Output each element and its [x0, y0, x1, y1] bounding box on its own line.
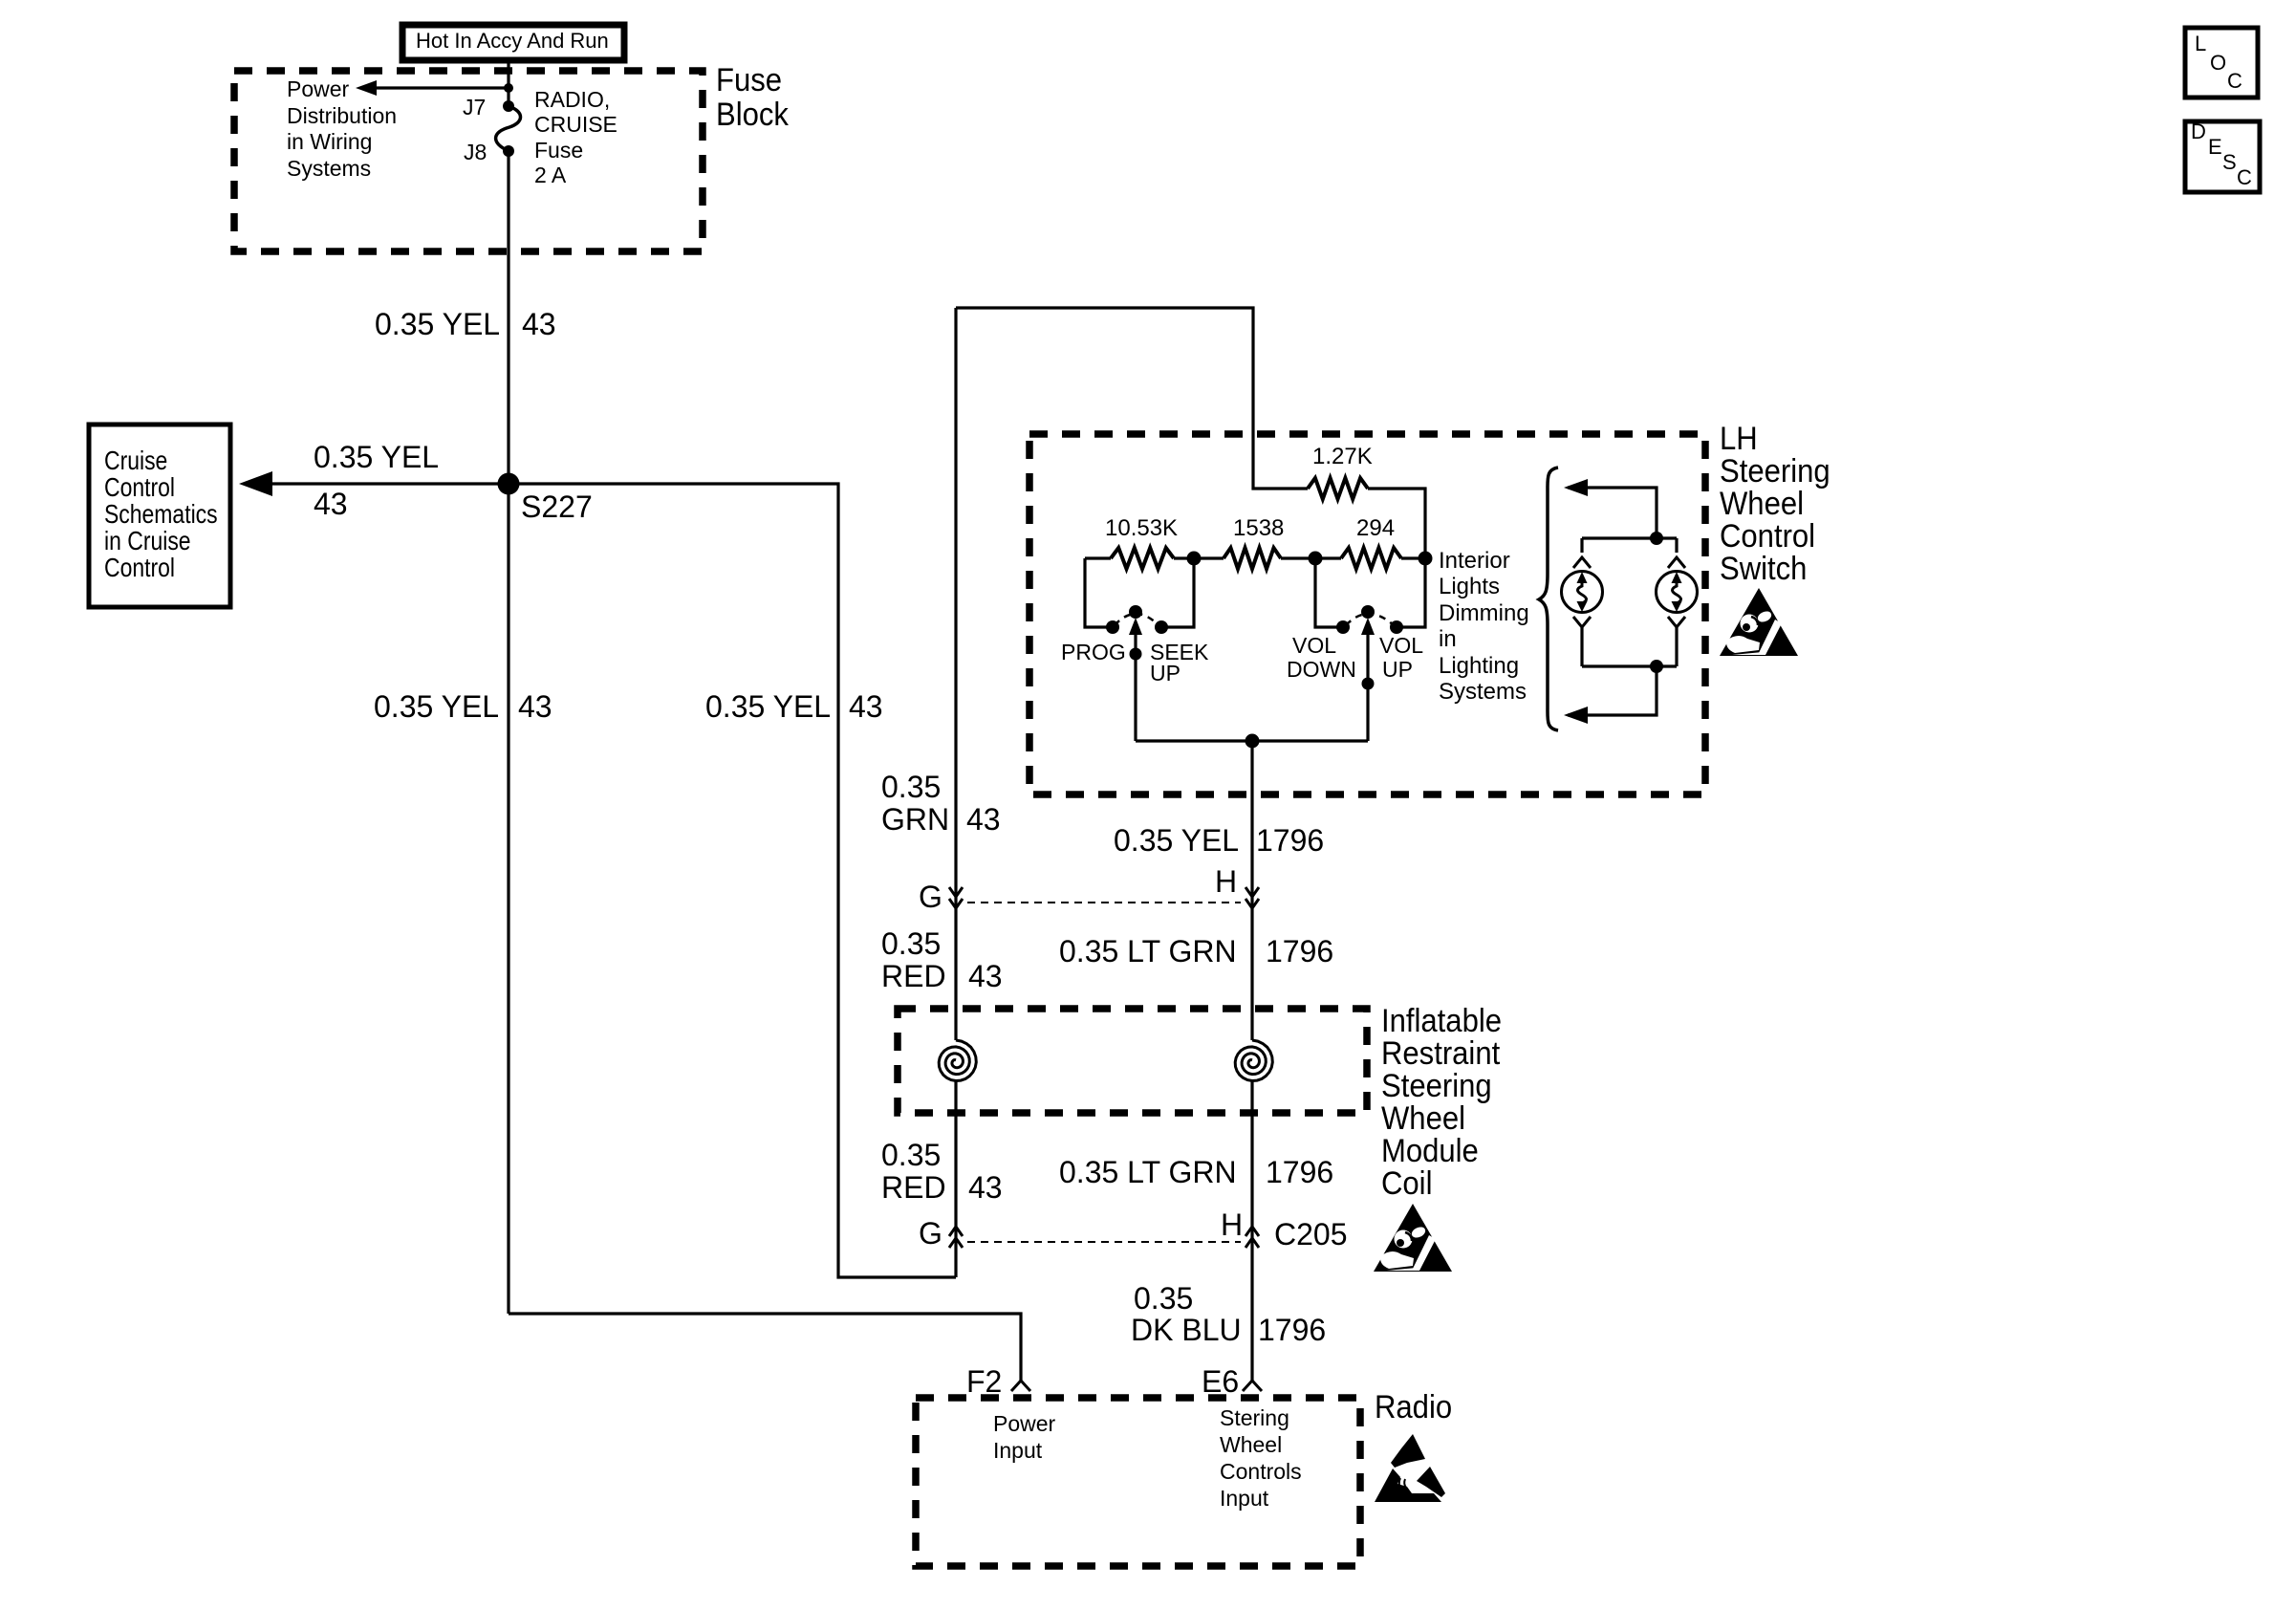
ESD triangle icon (radio) — [1375, 1434, 1445, 1502]
svg-text:C: C — [2237, 165, 2252, 189]
svg-text:C: C — [2227, 69, 2242, 93]
svg-text:0.35 LT GRN: 0.35 LT GRN — [1059, 934, 1237, 968]
svg-text:Wheel: Wheel — [1220, 1432, 1282, 1457]
arrowhead S227 to cruise box (left) — [239, 471, 272, 496]
wire: switch common bottom rail — [1136, 739, 1368, 742]
junction dot rail left — [1187, 552, 1202, 566]
svg-text:Lights: Lights — [1439, 574, 1500, 599]
svg-text:Switch: Switch — [1720, 549, 1807, 586]
svg-text:UP: UP — [1150, 661, 1180, 685]
svg-text:43: 43 — [518, 689, 552, 724]
switch arrowhead right — [1361, 618, 1375, 635]
wire: power distribution arrow line — [375, 86, 509, 89]
svg-text:E: E — [2208, 135, 2222, 159]
contact dot left switch left — [1106, 620, 1119, 634]
svg-text:J7: J7 — [463, 95, 486, 120]
connector G bottom (double chevron up) — [949, 1227, 963, 1248]
svg-text:43: 43 — [968, 1170, 1003, 1205]
junction dot lamp bottom rail — [1650, 660, 1663, 673]
switch VOL dashed wiper arc — [1346, 614, 1394, 625]
svg-text:O: O — [2210, 51, 2226, 75]
wire: lamp left drop lower — [1580, 626, 1583, 666]
svg-text:2 A: 2 A — [534, 163, 567, 187]
svg-text:Distribution: Distribution — [287, 103, 397, 128]
svg-text:D: D — [2191, 120, 2206, 143]
connector H bottom C205 (double chevron up) — [1245, 1227, 1259, 1248]
svg-text:0.35: 0.35 — [881, 1138, 941, 1172]
coil spiral right (SIR coil) — [1235, 1040, 1272, 1081]
svg-text:Lighting: Lighting — [1439, 653, 1519, 679]
wire: lamp left drop upper — [1580, 538, 1583, 553]
contact dot left switch right — [1155, 620, 1168, 634]
svg-text:Hot In Accy And Run: Hot In Accy And Run — [416, 29, 609, 53]
svg-text:VOL: VOL — [1379, 633, 1423, 658]
svg-text:0.35: 0.35 — [881, 926, 941, 961]
wire: lamp bottom arrow drop and line — [1568, 666, 1657, 715]
arrowhead lamp top (left) — [1564, 479, 1588, 496]
svg-text:DK BLU: DK BLU — [1131, 1313, 1242, 1347]
SIR airbag triangle icon (below coil label) — [1374, 1204, 1452, 1272]
svg-text:0.35 YEL: 0.35 YEL — [314, 440, 439, 474]
LOC icon letters — [2195, 32, 2242, 93]
svg-text:F2: F2 — [966, 1364, 1002, 1399]
pivot dot right switch — [1361, 605, 1375, 619]
Cruise Control Schematics box — [89, 424, 230, 607]
svg-text:0.35 YEL: 0.35 YEL — [375, 307, 500, 341]
connector G top (double chevron down) — [949, 887, 963, 908]
Fuse Block dashed box — [234, 71, 703, 251]
junction dot at power arrow — [504, 83, 513, 93]
pivot dot left switch — [1129, 605, 1142, 619]
svg-text:CRUISE: CRUISE — [534, 112, 617, 137]
svg-text:0.35 YEL: 0.35 YEL — [705, 689, 831, 724]
svg-text:L: L — [2195, 32, 2206, 55]
svg-text:Dimming: Dimming — [1439, 600, 1529, 626]
svg-text:0.35 LT GRN: 0.35 LT GRN — [1059, 1155, 1237, 1189]
svg-text:43: 43 — [849, 689, 883, 724]
shaft dot right switch — [1362, 678, 1375, 690]
svg-text:UP: UP — [1382, 657, 1413, 682]
node J7 dot — [503, 100, 514, 112]
lamp symbol left (illumination) — [1562, 572, 1603, 613]
svg-text:Controls: Controls — [1220, 1459, 1302, 1484]
svg-text:0.35 YEL: 0.35 YEL — [1114, 823, 1239, 858]
DESC icon letters — [2191, 120, 2252, 189]
svg-text:Block: Block — [716, 95, 789, 132]
resistor 10.53K zigzag — [1111, 548, 1174, 569]
svg-text:Power: Power — [287, 76, 350, 101]
svg-text:Control: Control — [104, 473, 175, 503]
svg-text:in Wiring: in Wiring — [287, 129, 372, 154]
svg-text:G: G — [919, 880, 942, 914]
junction dot bottom switch rail — [1245, 734, 1260, 749]
lamp connector chevron down-left — [1573, 617, 1591, 627]
wire: main feed vertical from Hot box to J7 — [507, 60, 509, 106]
switch arrowhead left (pointing up at pivot) — [1129, 618, 1142, 635]
DESC box — [2185, 121, 2260, 192]
svg-text:Fuse: Fuse — [534, 138, 583, 163]
lamp connector chevron up-left — [1573, 557, 1591, 568]
arrowhead power distribution (left) — [356, 80, 377, 96]
svg-text:1796: 1796 — [1266, 1155, 1333, 1189]
svg-text:DOWN: DOWN — [1287, 657, 1356, 682]
svg-text:Input: Input — [993, 1438, 1043, 1463]
wire: G line vertical x=1000 — [954, 1080, 957, 1277]
wire: S227 arrow line to cruise control box — [270, 482, 509, 485]
svg-text:Fuse: Fuse — [716, 60, 782, 98]
shaft dot left switch — [1130, 648, 1142, 661]
junction dot rail right — [1419, 552, 1433, 566]
svg-text:in Cruise: in Cruise — [104, 527, 191, 556]
connector H top (double chevron down) — [1245, 887, 1259, 908]
wire: lamp bottom rail — [1582, 664, 1677, 667]
svg-text:Schematics: Schematics — [104, 500, 218, 530]
Radio dashed box — [916, 1398, 1360, 1566]
resistor 294 zigzag — [1341, 548, 1401, 569]
svg-text:0.35: 0.35 — [881, 770, 941, 804]
svg-text:Power: Power — [993, 1411, 1056, 1436]
svg-text:Control: Control — [104, 554, 175, 583]
junction dot rail mid — [1309, 552, 1323, 566]
wire: top jog from G line to switch box — [956, 308, 1308, 489]
svg-text:RED: RED — [881, 1170, 946, 1205]
wire: right switch left contact lead from rail — [1315, 558, 1337, 627]
wire: lamp top arrow line — [1568, 488, 1657, 538]
wire: lamp right drop upper — [1675, 538, 1678, 553]
label Fuse Block — [716, 60, 789, 132]
resistor 1538 zigzag — [1224, 548, 1281, 569]
curly brace around lamp circuit — [1539, 468, 1558, 730]
svg-text:S227: S227 — [521, 490, 593, 524]
contact dot right switch right — [1390, 620, 1403, 634]
resistor 1.27K zigzag — [1308, 478, 1368, 499]
svg-text:1538: 1538 — [1233, 515, 1284, 541]
svg-text:43: 43 — [314, 487, 348, 521]
wire: left switch right contact to rail — [1167, 558, 1194, 627]
pin F2 chevron — [1011, 1381, 1030, 1391]
Inflatable Restraint Steering Wheel Module Coil dashed box — [898, 1009, 1367, 1113]
svg-text:Coil: Coil — [1381, 1164, 1432, 1201]
node J8 dot — [503, 145, 514, 157]
lamp connector chevron down-right — [1668, 617, 1685, 627]
wire: S227 right branch to x=877 down to y=1336 right to G line — [509, 484, 956, 1277]
svg-text:GRN: GRN — [881, 802, 949, 837]
svg-text:43: 43 — [968, 959, 1003, 993]
svg-text:43: 43 — [966, 802, 1001, 837]
wire: lamp top rail — [1582, 536, 1677, 539]
svg-text:PROG: PROG — [1061, 640, 1126, 664]
svg-text:VOL: VOL — [1292, 633, 1336, 658]
svg-text:E6: E6 — [1202, 1364, 1239, 1399]
svg-text:Systems: Systems — [1439, 679, 1527, 705]
wire: bottom feed horizontal to F2 riser — [509, 1314, 1021, 1381]
svg-text:in: in — [1439, 626, 1457, 652]
svg-text:Input: Input — [1220, 1486, 1269, 1511]
arrowhead lamp bottom (left) — [1564, 707, 1588, 724]
svg-text:Radio: Radio — [1375, 1387, 1452, 1425]
wire: J8 down to S227 and to bottom turn — [507, 151, 509, 1314]
label Radio — [1375, 1387, 1452, 1425]
wire: H line from switch bottom to E6 — [1250, 741, 1253, 1040]
svg-text:H: H — [1215, 864, 1237, 899]
svg-text:Systems: Systems — [287, 156, 371, 181]
wire: left switch arrow shaft — [1134, 631, 1137, 741]
fuse RADIO CRUISE 2A (wavy symbol between J7 and J8) — [496, 106, 521, 151]
svg-text:0.35 YEL: 0.35 YEL — [374, 689, 499, 724]
wire: right switch arrow shaft — [1366, 631, 1369, 741]
junction dot lamp top rail — [1650, 532, 1663, 545]
switch PROG/SEEK-UP dashed wiper arc — [1115, 614, 1159, 625]
LOC box — [2185, 28, 2258, 98]
wire: right switch right contact to rail — [1402, 558, 1425, 627]
svg-text:1796: 1796 — [1256, 823, 1324, 858]
svg-text:294: 294 — [1356, 515, 1395, 541]
pin E6 chevron — [1243, 1381, 1262, 1391]
connector dashed line top G-H — [967, 902, 1241, 903]
svg-text:1.27K: 1.27K — [1312, 444, 1373, 469]
wire: lamp right drop lower — [1675, 626, 1678, 666]
contact dot right switch left — [1336, 620, 1350, 634]
svg-text:H: H — [1221, 1207, 1243, 1242]
svg-text:0.35: 0.35 — [1134, 1281, 1193, 1316]
svg-text:RADIO,: RADIO, — [534, 87, 610, 112]
connector dashed line bottom G-H — [967, 1241, 1241, 1243]
label LH Steering Wheel Control Switch — [1720, 419, 1830, 586]
svg-text:43: 43 — [522, 307, 556, 341]
label Cruise Control Schematics in Cruise Control (condensed) — [104, 446, 218, 583]
label Inflatable Restraint Steering Wheel Module Coil — [1381, 1001, 1502, 1201]
lamp symbol right (illumination) — [1657, 572, 1698, 613]
svg-text:10.53K: 10.53K — [1105, 515, 1178, 541]
svg-text:1796: 1796 — [1266, 934, 1333, 968]
svg-text:J8: J8 — [464, 140, 487, 164]
lamp connector chevron up-right — [1668, 557, 1685, 568]
LH Steering Wheel Control Switch dashed box — [1029, 434, 1705, 794]
svg-text:S: S — [2222, 150, 2237, 174]
svg-text:Interior: Interior — [1439, 548, 1510, 574]
svg-text:G: G — [919, 1216, 942, 1251]
SIR airbag triangle icon (next to switch label) — [1720, 588, 1798, 656]
Hot In Accy And Run box — [402, 25, 624, 60]
wire: 1.27K right lead down to rail — [1368, 489, 1425, 558]
node S227 junction dot — [498, 473, 520, 495]
svg-text:Cruise: Cruise — [104, 446, 167, 476]
svg-text:Stering: Stering — [1220, 1405, 1289, 1430]
wire: 10.53K left lead down to left contact — [1085, 558, 1107, 627]
coil spiral left (SIR coil) — [939, 1040, 976, 1081]
svg-text:C205: C205 — [1274, 1217, 1348, 1251]
wire: resistor rail segments — [1085, 556, 1111, 559]
svg-text:1796: 1796 — [1258, 1313, 1326, 1347]
svg-text:RED: RED — [881, 959, 946, 993]
